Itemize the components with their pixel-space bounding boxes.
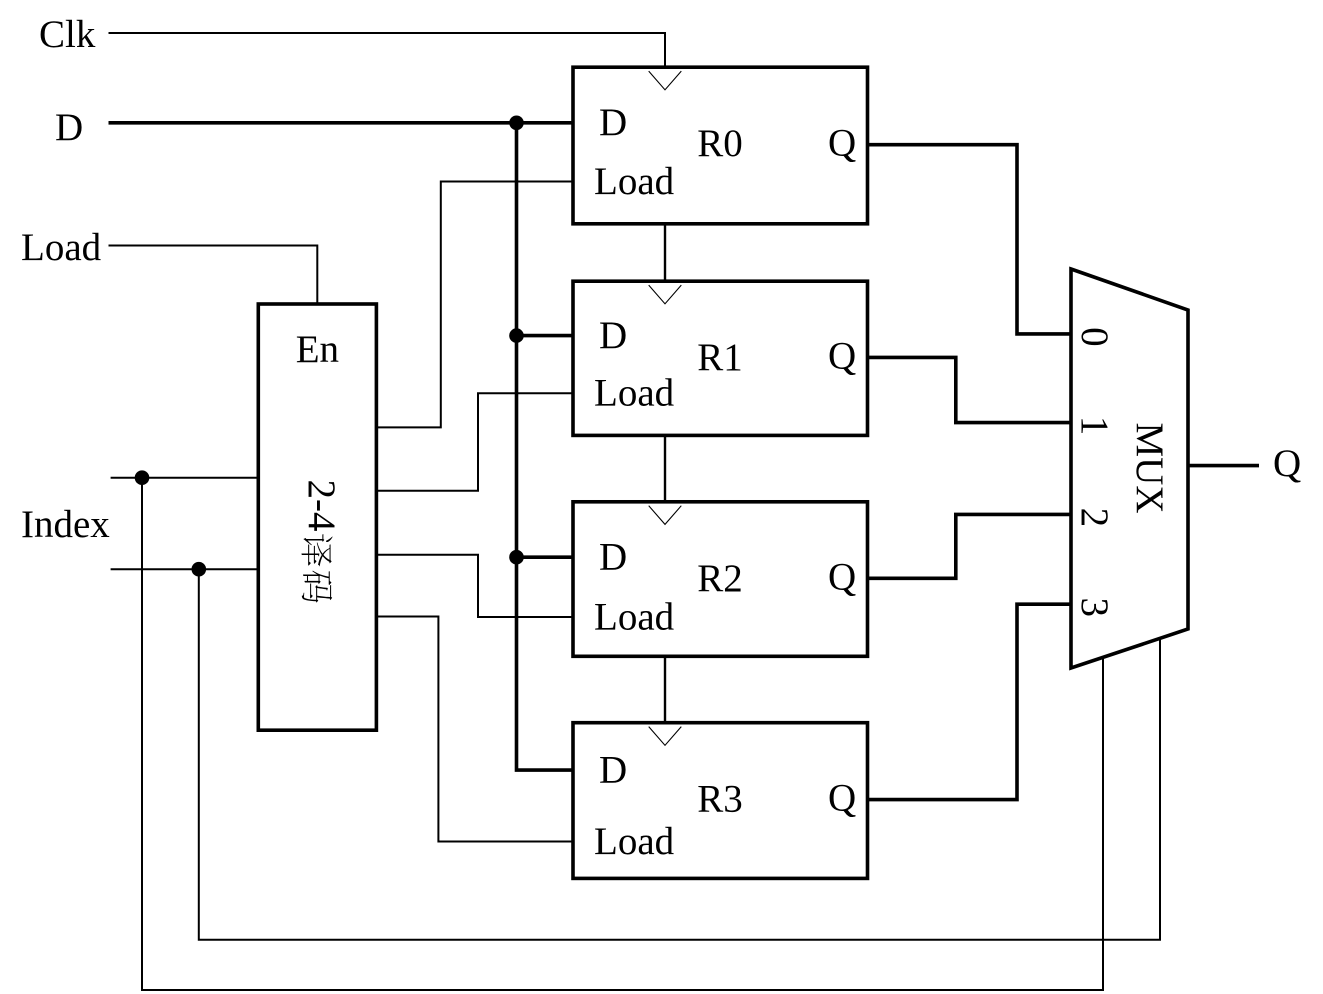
wire clock chain R2 to R3: [664, 656, 666, 722]
multiplexer MUX: [1071, 269, 1188, 668]
junction dot D bus at R1: [509, 328, 524, 343]
svg-text:D: D: [599, 314, 627, 357]
wire Index bit0 to MUX select: [142, 478, 1103, 990]
wire Load to decoder En: [109, 246, 318, 305]
svg-text:D: D: [599, 101, 627, 144]
svg-text:Q: Q: [828, 122, 856, 165]
svg-text:1: 1: [1073, 416, 1116, 436]
svg-text:D: D: [599, 536, 627, 579]
wire D stub to R1: [517, 334, 574, 338]
svg-text:En: En: [296, 328, 339, 371]
svg-text:D: D: [55, 106, 83, 149]
wire clock chain R1 to R2: [664, 435, 666, 501]
svg-text:3: 3: [1073, 597, 1116, 617]
svg-text:0: 0: [1073, 327, 1116, 347]
register R3: [573, 723, 868, 879]
wire decoder output 0 to R0 Load: [376, 182, 573, 428]
wire decoder output 3 to R3 Load: [376, 617, 573, 842]
svg-text:Q: Q: [1273, 442, 1301, 485]
svg-text:Load: Load: [594, 372, 675, 415]
register R1: [573, 281, 868, 435]
wire decoder output 2 to R2 Load: [376, 555, 573, 617]
wire D input (thick): [109, 121, 574, 125]
svg-text:2-4: 2-4: [300, 480, 343, 532]
wire clock chain R0 to R1: [664, 224, 666, 281]
junction dot Index bit0: [135, 470, 150, 485]
svg-text:Load: Load: [594, 595, 675, 638]
wire R3 Q to MUX input 3: [868, 604, 1072, 799]
decoder U1 2-4: [258, 304, 376, 730]
wire Clk to R0 clock: [109, 33, 666, 67]
junction dot D bus at R0: [509, 116, 524, 131]
wire MUX output Q: [1188, 464, 1259, 468]
svg-text:R0: R0: [697, 122, 743, 165]
svg-text:Q: Q: [828, 777, 856, 820]
svg-text:Q: Q: [828, 555, 856, 598]
svg-text:D: D: [599, 749, 627, 792]
wire D bus vertical (thick): [517, 123, 574, 770]
wire R0 Q to MUX input 0: [868, 145, 1072, 334]
svg-text:R2: R2: [697, 557, 743, 600]
wire Index bit0 to decoder: [111, 477, 259, 479]
register R2: [573, 502, 868, 657]
wire D stub to R2: [517, 555, 574, 559]
junction dot D bus at R2: [509, 550, 524, 565]
svg-text:R1: R1: [697, 336, 743, 379]
wire R1 Q to MUX input 1: [868, 357, 1072, 422]
junction dot Index bit1: [192, 562, 207, 577]
svg-text:Index: Index: [21, 503, 110, 546]
svg-text:R3: R3: [697, 778, 743, 821]
wire decoder output 1 to R1 Load: [376, 393, 573, 491]
svg-text:Load: Load: [594, 160, 675, 203]
svg-text:MUX: MUX: [1128, 422, 1171, 513]
svg-text:Load: Load: [21, 226, 102, 269]
wire Index bit1 to decoder: [111, 568, 259, 570]
svg-text:Q: Q: [828, 334, 856, 377]
wire Index bit1 to MUX select: [199, 569, 1160, 940]
svg-text:2: 2: [1073, 508, 1116, 528]
svg-text:Clk: Clk: [39, 13, 96, 56]
wire R2 Q to MUX input 2: [868, 514, 1072, 578]
register R0: [573, 67, 868, 224]
svg-text:Load: Load: [594, 820, 675, 863]
